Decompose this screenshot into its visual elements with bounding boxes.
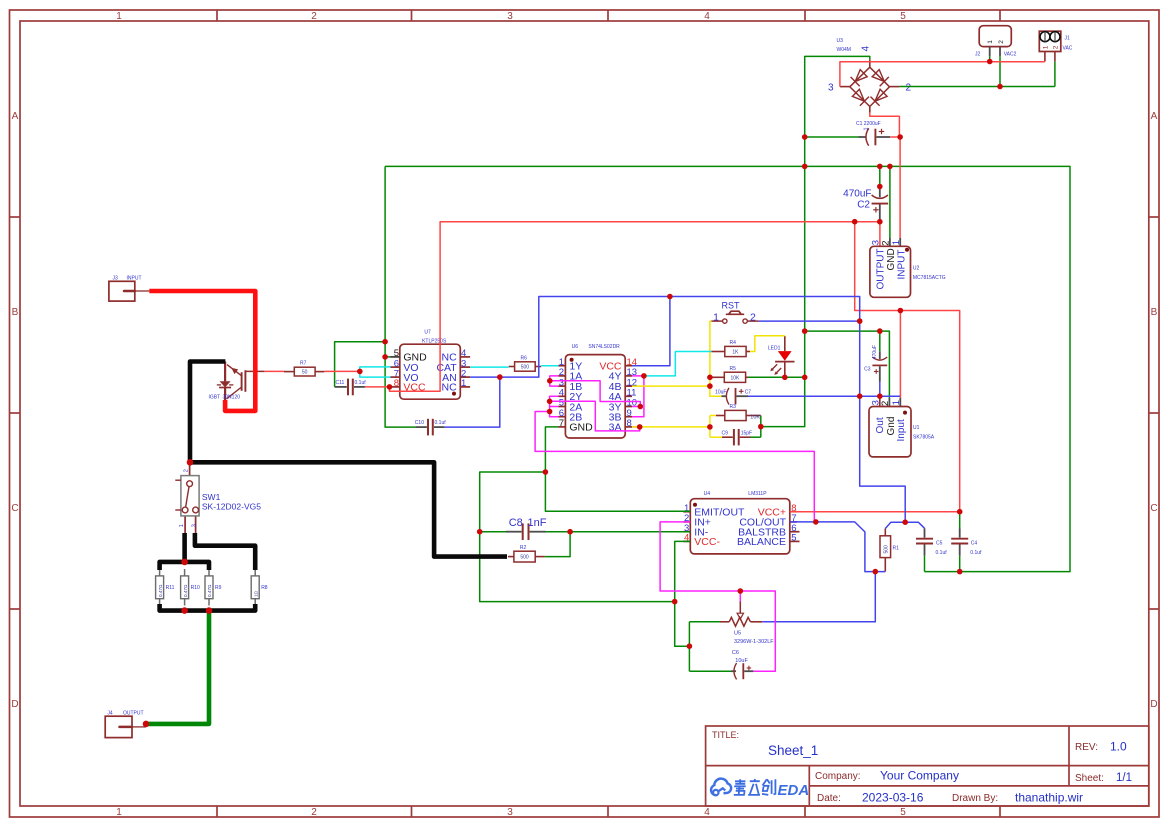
wire U5 C6 left bracket [688,622,690,671]
svg-text:1: 1 [891,240,902,245]
svg-text:C4: C4 [971,541,978,547]
svg-text:R9: R9 [215,585,222,591]
svg-text:INPUT: INPUT [127,276,142,282]
svg-text:2: 2 [183,469,189,472]
svg-text:7: 7 [559,418,564,429]
svg-text:EDA: EDA [778,782,810,799]
svg-text:3296W-1-302LF: 3296W-1-302LF [734,639,774,645]
wire C2 bottom join [879,222,881,225]
svg-text:R7: R7 [300,361,307,367]
svg-text:J2: J2 [975,52,981,58]
svg-text:U5: U5 [734,631,741,637]
svg-text:Your Company: Your Company [880,769,959,783]
wire U7 CAT to R6 [470,366,509,368]
wire thick SW1 pin1 down [182,533,187,562]
resistor R8 1&#93 [251,569,268,606]
wire C10 right riser [444,377,499,427]
svg-text:J1: J1 [1065,36,1071,42]
svg-text:Gnd: Gnd [886,417,897,436]
capacitor C7 10uF [715,388,751,405]
svg-text:GND: GND [569,422,593,434]
svg-text:1Ω: 1Ω [253,590,258,597]
svg-text:1nF: 1nF [528,517,547,529]
wire U4 VCC- drop [675,541,691,646]
wire U6 4B to RST node [632,385,710,387]
wire to U1 Input [899,311,901,399]
resistor R11 0.47& [156,569,175,606]
wire U6 GND to U4 pin1 [545,427,690,511]
wire C4 top stub [959,511,961,528]
svg-text:VAC2: VAC2 [1004,52,1017,58]
wire J2 pin2 drop [999,56,1001,86]
wire C3 top stub [879,331,881,351]
svg-text:OUTPUT: OUTPUT [123,711,144,717]
svg-text:KTLP250S: KTLP250S [422,338,447,344]
wire bridge pin1 to C1 plus [870,112,900,137]
svg-text:5: 5 [791,533,796,544]
resistor R10 0.47& [181,569,200,606]
wire C5 bottom stub [924,556,926,572]
wire U6 VCC drop [632,297,670,366]
svg-text:1: 1 [179,524,185,527]
svg-text:R10: R10 [191,585,200,591]
wire U4 IN+ to wiper and C6 [660,522,775,671]
wire VIN to U2 pin1 [899,137,901,238]
transistor IGBT 30N120 [209,362,265,401]
JLC EDA logo [711,779,809,799]
wire AC1 bridge pin3 to J1 pin1 [840,62,1045,87]
svg-text:500: 500 [884,545,890,554]
wire 5V main [470,297,905,523]
capacitor C6 10uF [731,650,753,679]
svg-text:SN74LS02DR: SN74LS02DR [588,344,620,350]
wire thick INPUT to IGBT emitter [149,291,255,411]
wire R1 top C5 5V link [885,522,924,528]
capacitor C10 0.1uf [415,419,446,436]
svg-text:C: C [11,503,18,514]
svg-text:TITLE:: TITLE: [712,730,739,740]
svg-text:C9: C9 [722,431,729,437]
svg-text:3A: 3A [609,422,622,434]
svg-text:2023-03-16: 2023-03-16 [862,791,924,805]
svg-text:W04M: W04M [837,47,851,53]
svg-text:4: 4 [704,11,710,22]
wire U7 VCC rail to C2 bottom [390,222,880,392]
wire RST pin2 to 5V [759,320,860,322]
svg-text:0.1uf: 0.1uf [970,550,982,556]
potentiometer U5 3296W-1-302LF [720,602,774,646]
wire R3 C9 left bracket [709,416,711,438]
wire wiper stub [739,591,741,602]
svg-text:R4: R4 [730,340,737,346]
svg-text:0.1uf: 0.1uf [936,550,948,556]
resistor R6 500 [515,362,536,371]
pushbutton RST [711,301,758,324]
wire C8 right to U4 IN- [546,531,691,533]
svg-text:NC: NC [442,382,458,394]
wire U6 4Y to R4 [644,352,711,376]
svg-text:R6: R6 [521,355,528,361]
svg-text:1K: 1K [732,350,739,356]
connector J4 OUTPUT [105,711,146,738]
svg-text:8: 8 [394,378,399,389]
wire thick to R2 [190,462,507,556]
wire C9 left link [710,436,722,438]
wire U4 COL/OUT to R1 bottom [790,522,886,572]
svg-text:2: 2 [906,83,912,94]
wire C8 left [480,531,506,533]
svg-text:R1: R1 [893,546,900,552]
voltage regulator U2 MC7815ACTG [870,222,946,298]
svg-text:R11: R11 [166,585,175,591]
connector J2 VAC2 [975,26,1017,58]
svg-text:5: 5 [900,807,906,818]
svg-text:0.47Ω: 0.47Ω [183,584,188,597]
svg-text:U1: U1 [913,425,920,431]
svg-text:Input: Input [896,419,907,441]
svg-text:SK-12D02-VG5: SK-12D02-VG5 [202,502,261,512]
svg-text:2: 2 [311,807,317,818]
TITLE BLOCK [706,726,1149,806]
svg-text:30N120: 30N120 [223,394,241,400]
wire U6 1A 1B tie [550,376,559,386]
capacitor C1 2200uF [856,121,890,146]
wire C9 right link [751,436,761,438]
svg-text:SW1: SW1 [202,492,221,502]
svg-text:MC7815ACTG: MC7815ACTG [913,275,946,281]
svg-text:0.47Ω: 0.47Ω [158,584,163,597]
wire C1 right [890,136,900,138]
wire U6 2Y 2A 2B tie [550,396,559,416]
svg-text:R8: R8 [261,585,268,591]
svg-text:Sheet_1: Sheet_1 [768,743,818,758]
resistor R5 10K [724,372,745,382]
svg-text:15pF: 15pF [741,431,752,437]
wire U7 pin5 link [385,356,390,358]
resistor R2 500 [514,551,535,562]
svg-text:3: 3 [191,524,197,527]
svg-text:2: 2 [880,401,891,406]
svg-text:Company:: Company: [815,771,861,782]
svg-text:0.1uf: 0.1uf [435,420,447,426]
svg-text:A: A [12,111,19,122]
wire C6 left lead [689,670,731,672]
svg-text:U4: U4 [704,491,711,497]
svg-text:VCC-: VCC- [694,536,720,548]
wire J1 pin2 stub link [1054,62,1056,87]
wire U5 left lead [689,621,720,623]
optocoupler U7 KTLP250S [391,330,471,400]
wire U6 3A to R3 C9 [632,426,710,428]
resistor R1 500 [880,529,899,572]
wire AC2 bridge pin2 to J1 [899,86,1055,88]
svg-text:1: 1 [713,312,719,324]
switch SW1 SK-12D02-VG5 [175,462,261,533]
capacitor C11 0.1uf [335,379,367,396]
svg-text:A: A [1151,111,1158,122]
resistor R7 50 [294,367,315,376]
capacitor C5 0.1uf [916,528,947,556]
svg-text:50: 50 [302,370,308,376]
svg-text:C11: C11 [336,380,345,386]
svg-text:3: 3 [507,11,513,22]
svg-text:U6: U6 [572,344,579,350]
wire C11 right to U7 VCC [365,386,390,388]
svg-text:C6: C6 [732,650,739,656]
svg-text:1: 1 [461,378,466,389]
wire R1 bottom to U5 right [762,572,875,622]
comparator U4 LM311P [683,491,799,554]
wire R3 left link [710,415,716,417]
wire thick SW1 pin3 to R8 [195,533,255,570]
svg-text:C7: C7 [745,390,752,396]
svg-text:1.0: 1.0 [1110,740,1127,754]
svg-text:5: 5 [900,11,906,22]
svg-text:2: 2 [750,312,756,324]
svg-text:B: B [1151,307,1158,318]
wire J2 pin1 link [989,56,991,61]
wire 4Y to 3B [632,376,644,417]
svg-text:R2: R2 [520,545,527,551]
svg-text:C8: C8 [509,517,523,529]
svg-text:1: 1 [863,127,869,130]
svg-text:470uF: 470uF [843,189,871,200]
svg-text:U2: U2 [913,266,920,272]
svg-text:D: D [11,699,18,710]
svg-text:J3: J3 [113,276,119,282]
wire U7 VO tie [360,367,391,377]
svg-text:C2: C2 [857,200,870,211]
svg-text:1: 1 [116,11,122,22]
capacitor C9 15pF [722,429,753,445]
capacitor C8 1nF [506,517,547,540]
wire R7 to U7 VO [324,370,359,372]
svg-text:4: 4 [704,807,710,818]
svg-text:R3: R3 [730,404,737,410]
svg-text:GND: GND [886,248,897,270]
svg-text:Drawn By:: Drawn By: [952,793,998,804]
svg-text:U3: U3 [837,38,844,44]
svg-text:1: 1 [987,40,994,44]
wire thick shunt bottom bar [160,604,256,611]
svg-text:C10: C10 [415,420,424,426]
LED LED1 [768,336,795,377]
svg-text:C1 2200uF: C1 2200uF [856,121,881,127]
wire RST pin1 down to C7 [710,321,722,396]
svg-text:3: 3 [507,807,513,818]
svg-text:C: C [1150,503,1157,514]
wire thick shunt top bar [160,562,209,570]
svg-text:C5: C5 [936,541,943,547]
svg-text:0.1uf: 0.1uf [355,380,367,386]
wire U4 VCC+ rail [790,511,960,513]
resistor R9 0.47& [205,569,222,606]
svg-text:2: 2 [998,40,1005,44]
wire comparator out to U6 2B [535,412,814,522]
svg-text:470uF: 470uF [872,345,878,359]
svg-text:1: 1 [891,400,902,405]
svg-text:B: B [12,307,19,318]
capacitor C3 470uF [864,345,887,381]
svg-text:IGBT: IGBT [209,394,221,400]
wire latch feedback 3Y to 1A1B [550,381,641,407]
svg-text:RST: RST [722,301,741,311]
wire IGBT gate to R7 [264,370,284,372]
wire C7 to U1 Out 5V [748,395,900,397]
svg-text:10K: 10K [730,375,740,381]
wire C1 left [805,136,859,138]
resistor R4 1K [725,346,746,356]
svg-text:LED1: LED1 [768,346,781,352]
svg-text:4: 4 [861,46,872,52]
wire C2 top stub [879,166,881,188]
svg-text:1: 1 [116,807,122,818]
svg-text:500: 500 [521,365,530,371]
svg-text:Sheet:: Sheet: [1075,773,1104,784]
svg-text:U7: U7 [424,330,431,336]
wire R6 to U6 1Y [541,365,558,367]
svg-text:BALANCE: BALANCE [737,536,786,548]
svg-text:8: 8 [627,418,632,429]
svg-text:LM311P: LM311P [748,491,767,497]
wire R5 LED cathode to GND rail [748,376,805,378]
svg-text:Date:: Date: [817,793,841,804]
wire GND to C3 and U1 pin2 [805,331,890,398]
wire thick IGBT collector down [190,362,225,463]
wire R3 C9 right bracket [760,416,762,438]
svg-text:500: 500 [520,555,529,561]
svg-text:VAC: VAC [1063,46,1073,52]
svg-text:J4: J4 [107,711,113,717]
connector J1 VAC [1039,31,1072,62]
svg-text:SK7805A: SK7805A [913,435,935,441]
svg-text:D: D [1150,699,1157,710]
connector J3 INPUT [109,276,149,301]
svg-text:0.47Ω: 0.47Ω [207,584,212,597]
voltage regulator U1 SK7805A [869,396,935,457]
svg-text:REV:: REV: [1075,742,1098,753]
svg-text:C3: C3 [864,366,871,372]
svg-text:1/1: 1/1 [1116,772,1132,784]
svg-text:R5: R5 [730,366,737,372]
resistor R3 10K [725,410,746,420]
wire R2 right riser [545,532,570,557]
wire VCC down right rail [855,222,960,512]
svg-text:10K: 10K [750,415,760,421]
svg-text:3: 3 [828,83,834,94]
svg-text:INPUT: INPUT [896,250,907,280]
wire GND bridge pin4 left rail [761,56,870,426]
svg-text:10uF: 10uF [715,389,726,395]
bridge rectifier U3 W04M [828,38,912,113]
wire C4 bottom stub [959,556,961,572]
svg-text:10uF: 10uF [735,658,748,664]
capacitor C4 0.1uf [951,529,982,557]
wire C11 left loop [335,342,386,387]
svg-text:OUTPUT: OUTPUT [875,248,886,289]
svg-text:2: 2 [311,11,317,22]
svg-text:1: 1 [1043,45,1050,49]
wire latch feedback 2Y to 3A [550,401,640,431]
wire R4 to LED anode [750,336,785,352]
wire U6 2A link [550,406,559,408]
svg-text:thanathip.wir: thanathip.wir [1015,791,1083,805]
wire thick OUTPUT to J4 [146,611,209,724]
wire signal GND loop [480,472,675,602]
IC U6 SN74LS02DR [559,344,638,438]
svg-text:2: 2 [1053,45,1060,49]
svg-text:Out: Out [875,417,886,433]
wire GND top rail and right rail [385,166,1070,571]
wire C3 bottom to 5V [879,382,881,397]
wire U2 pin2 drop [889,166,891,238]
capacitor C2 470uF [843,189,888,222]
wire GND left drop to C10 [385,166,415,427]
